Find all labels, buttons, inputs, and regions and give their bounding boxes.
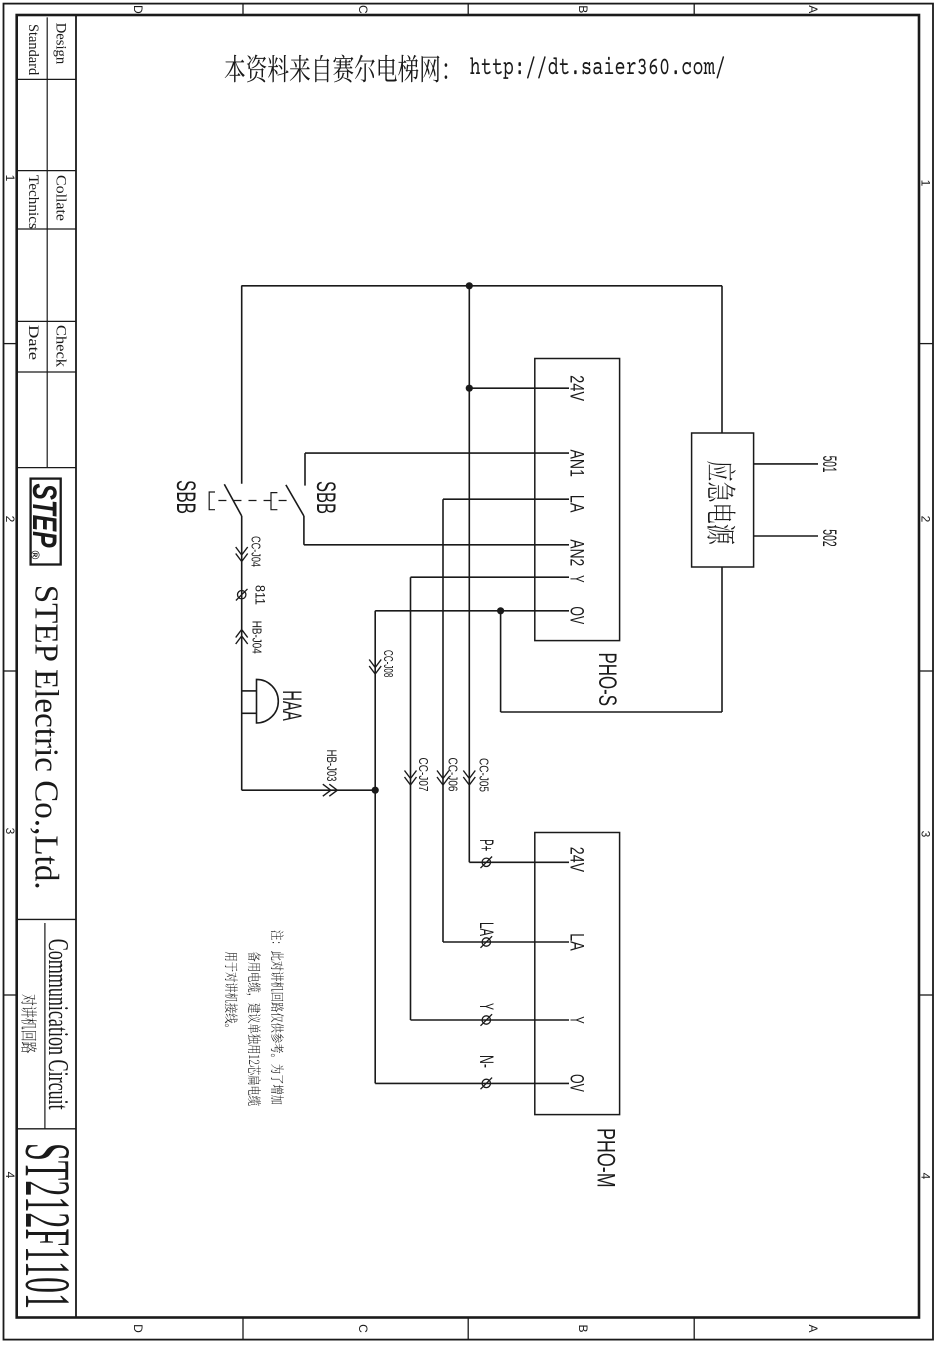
- svg-text:STEP Electric Co.,Ltd.: STEP Electric Co.,Ltd.: [28, 585, 65, 890]
- arrow HB-J03: [329, 784, 337, 796]
- switch SBB left fixed wire: [241, 286, 243, 484]
- svg-text:24V: 24V: [566, 375, 587, 401]
- wire pin 501 stub: [754, 463, 818, 465]
- emergency power box 应急电源: [692, 433, 754, 567]
- svg-text:D: D: [131, 1324, 145, 1333]
- PHO-S pin LA: [443, 498, 569, 500]
- svg-text:ST212F1101: ST212F1101: [11, 1143, 83, 1309]
- STEP logo box: [31, 479, 61, 565]
- note text line 2: [246, 952, 261, 1106]
- zone ticks bottom edge: [4, 343, 17, 345]
- PHO-M pin Y: [411, 1019, 570, 1021]
- svg-text:OV: OV: [566, 606, 587, 624]
- svg-text:OV: OV: [566, 1074, 587, 1092]
- svg-text:HAA: HAA: [277, 690, 307, 721]
- wire 0V horizontal bus: [374, 611, 376, 1084]
- wire 24V supply bus vertical: [241, 285, 722, 287]
- PHO-M pin 0V: [375, 1082, 569, 1084]
- node junction supply bus: [466, 282, 473, 289]
- svg-text:LA: LA: [475, 922, 496, 936]
- note text line 3: [225, 952, 238, 1027]
- svg-text:A: A: [806, 1324, 820, 1332]
- svg-text:501: 501: [818, 456, 839, 473]
- svg-text:Date: Date: [25, 325, 41, 361]
- PHO-S pin Y: [411, 576, 570, 578]
- svg-text:HB-J04: HB-J04: [250, 621, 265, 654]
- wire LA horizontal bus: [442, 499, 444, 942]
- arrow CC-J06: [437, 777, 449, 785]
- svg-text:AN2: AN2: [566, 539, 587, 566]
- PHO-M pin 24V: [469, 861, 569, 863]
- node junction 24V pin: [466, 385, 473, 392]
- svg-text:502: 502: [818, 529, 839, 546]
- svg-text:CC-J04: CC-J04: [249, 536, 264, 567]
- svg-text:2: 2: [3, 516, 17, 523]
- wire switch to horn: [241, 516, 243, 790]
- terminal circle Y: [482, 1016, 490, 1024]
- switch SBB left blade: [224, 484, 241, 516]
- terminal circle 811: [238, 591, 246, 599]
- PHO-M pin LA: [443, 941, 569, 943]
- svg-text:3: 3: [3, 828, 17, 835]
- comm cell sub divider: [44, 923, 46, 1129]
- title block top edge: [75, 15, 77, 1318]
- buzzer HAA symbol: [257, 679, 279, 723]
- svg-text:STEP: STEP: [25, 484, 63, 548]
- PHO-M box: [535, 833, 620, 1115]
- svg-text:D: D: [131, 5, 145, 14]
- PHO-S pin 0V: [375, 610, 569, 612]
- PHO-S pin 24V: [469, 387, 569, 389]
- svg-text:C: C: [356, 1324, 370, 1333]
- svg-text:PHO-S: PHO-S: [593, 653, 621, 707]
- zone ticks top edge: [919, 343, 933, 345]
- svg-text:®: ®: [28, 551, 42, 560]
- svg-text:1: 1: [3, 175, 17, 182]
- PHO-S box: [535, 359, 620, 641]
- svg-text:24V: 24V: [566, 847, 587, 873]
- wire 24V horizontal bus: [468, 286, 470, 863]
- PHO-S pin AN2: [304, 544, 569, 546]
- watermark url: [470, 56, 724, 79]
- title block cell dividers: [17, 78, 76, 80]
- wire emergency supply return: [500, 611, 502, 712]
- svg-text:811: 811: [253, 585, 269, 605]
- svg-text:AN1: AN1: [566, 450, 587, 478]
- svg-text:Collate: Collate: [53, 175, 69, 222]
- terminal circle P+: [482, 858, 490, 866]
- svg-text:SBB: SBB: [311, 481, 341, 514]
- svg-text:3: 3: [919, 831, 933, 838]
- watermark 本资料来自赛尔电梯网: [225, 55, 448, 83]
- svg-text:Communication Circuit: Communication Circuit: [42, 939, 73, 1110]
- svg-text:B: B: [576, 5, 590, 13]
- svg-text:Y: Y: [475, 1003, 496, 1010]
- svg-text:LA: LA: [566, 933, 587, 951]
- svg-text:2: 2: [919, 516, 933, 523]
- svg-text:Y: Y: [566, 575, 587, 583]
- svg-text:B: B: [576, 1324, 590, 1332]
- arrow CC-J07: [405, 777, 417, 785]
- switch SBB right blade: [286, 485, 304, 516]
- wire top rail through emergency supply: [721, 286, 723, 712]
- terminal circle LA: [482, 938, 490, 946]
- svg-text:CC-J05: CC-J05: [477, 758, 492, 792]
- zone ticks right edge: [693, 1318, 695, 1340]
- svg-text:N-: N-: [475, 1055, 496, 1068]
- wire right drop from rail: [501, 711, 722, 713]
- svg-text:Y: Y: [566, 1016, 587, 1024]
- arrow CC-J04: [236, 554, 248, 562]
- switch SBB right AN1 segment: [304, 453, 306, 486]
- node junction HB-J03: [372, 787, 379, 794]
- mechanical link dashed: [218, 500, 286, 502]
- svg-text:Standard: Standard: [25, 24, 41, 76]
- svg-text:CC-J08: CC-J08: [381, 650, 396, 677]
- link bracket upper: [271, 493, 277, 510]
- wire Y horizontal bus: [410, 577, 412, 1020]
- node junction on 0V pin line: [497, 607, 504, 614]
- wire pin 502 stub: [754, 535, 818, 537]
- svg-text:C: C: [356, 5, 370, 14]
- svg-text:SBB: SBB: [171, 480, 201, 514]
- title 对讲机回路: [21, 994, 37, 1053]
- note text line 1: [271, 930, 284, 1104]
- svg-text:1: 1: [919, 180, 933, 187]
- svg-text:Technics: Technics: [25, 175, 41, 229]
- arrow CC-J05: [463, 777, 475, 785]
- terminal circle N-: [482, 1079, 490, 1087]
- svg-text:CC-J07: CC-J07: [416, 758, 431, 792]
- svg-text:PHO-M: PHO-M: [591, 1128, 619, 1188]
- svg-text:Design: Design: [53, 23, 69, 65]
- title block row divider: [46, 17, 48, 467]
- link bracket lower: [209, 492, 215, 510]
- svg-text:LA: LA: [566, 495, 587, 513]
- PHO-S pin AN1: [305, 452, 569, 454]
- arrow CC-J08: [369, 666, 381, 674]
- wire blade to AN2: [303, 516, 305, 545]
- arrow HB-J04: [236, 630, 248, 638]
- svg-text:HB-J03: HB-J03: [324, 750, 340, 782]
- zone ticks left edge: [693, 4, 695, 15]
- svg-text:Check: Check: [53, 325, 69, 368]
- svg-text:P+: P+: [475, 839, 496, 851]
- svg-text:CC-J06: CC-J06: [446, 758, 461, 792]
- svg-text:A: A: [806, 5, 820, 13]
- svg-text:4: 4: [919, 1173, 933, 1180]
- wire HB-J03 riser: [242, 789, 376, 791]
